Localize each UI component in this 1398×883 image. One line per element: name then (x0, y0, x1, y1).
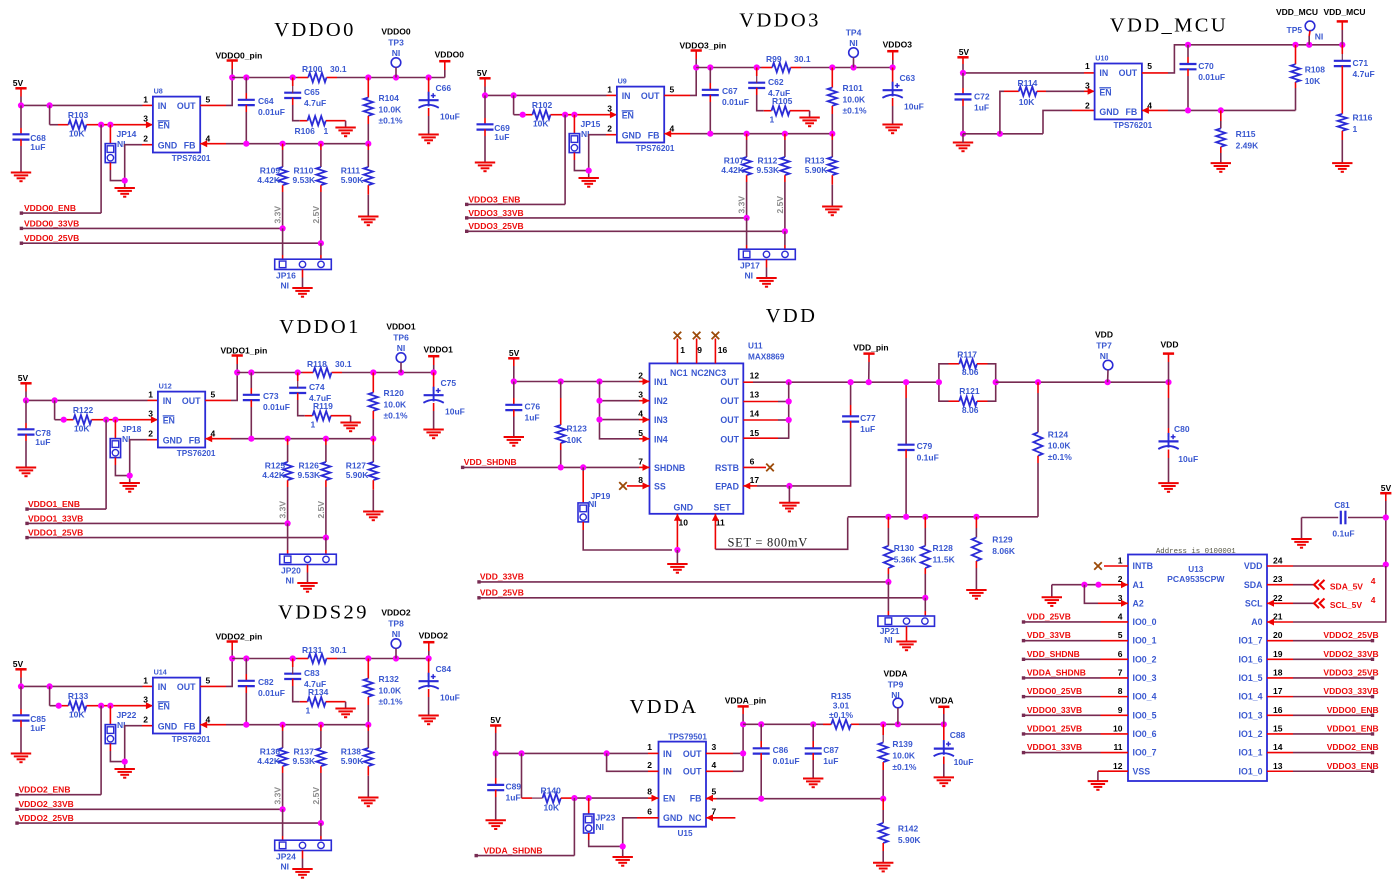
resistor R130 (884, 517, 918, 582)
resistor R104 (364, 78, 403, 144)
svg-text:IO0_6: IO0_6 (1133, 729, 1157, 739)
net label VDDO1_25VB (25, 528, 326, 540)
svg-text:JP17: JP17 (740, 261, 760, 271)
wire output bus (232, 62, 445, 78)
svg-text:3.3V: 3.3V (737, 196, 747, 214)
junction C70 top (1185, 42, 1191, 48)
jumper JP16 (275, 259, 332, 290)
svg-text:JP22: JP22 (117, 710, 137, 720)
svg-text:C87: C87 (823, 745, 839, 755)
svg-text:VDDO0: VDDO0 (274, 19, 355, 41)
wire OUT tie to VDDA bus (706, 724, 743, 771)
net label VDDO2_25VB (U13 pin 20) (1267, 630, 1379, 642)
junction FB-C1 (248, 436, 254, 442)
junction EN-ENB (98, 122, 104, 128)
title VDD_MCU (1110, 15, 1228, 37)
pin 3 EN input arrow (151, 416, 158, 423)
resistor R129 (972, 517, 1016, 590)
pin 3 EN arrow (U10) (1088, 88, 1095, 95)
svg-text:2: 2 (647, 760, 652, 770)
label 2.5V (311, 787, 321, 805)
junction FB-Rb (323, 436, 329, 442)
svg-text:SCL: SCL (1245, 598, 1263, 608)
regulator IC U12 TPS76201 (148, 382, 216, 458)
svg-text:IN3: IN3 (654, 415, 668, 425)
pin 3 A2 wire (1084, 585, 1128, 604)
svg-text:IO0_3: IO0_3 (1133, 673, 1157, 683)
ground under R127 (363, 512, 383, 521)
svg-text:10uF: 10uF (954, 757, 974, 767)
wire GND bottom net (963, 110, 1095, 133)
svg-text:IN: IN (158, 101, 167, 111)
svg-text:21: 21 (1273, 611, 1283, 621)
junction VDDA_pin node (740, 721, 746, 727)
svg-text:30.1: 30.1 (335, 359, 352, 369)
junction SHDNB-JP19 (580, 464, 586, 470)
capacitor C69 (477, 95, 511, 162)
title VDD (766, 305, 818, 327)
svg-text:IO1_3: IO1_3 (1239, 710, 1263, 720)
ground under R113 (822, 207, 842, 216)
svg-text:EN: EN (1099, 87, 1111, 97)
capacitor C71 (1334, 45, 1375, 114)
pin 3 IN2 arrow (643, 397, 650, 404)
svg-text:R115: R115 (1236, 129, 1256, 139)
svg-text:4.42K: 4.42K (257, 175, 281, 185)
jumper JP20 (280, 554, 337, 585)
svg-text:VDDO1: VDDO1 (386, 321, 416, 331)
junction C76 top (511, 378, 517, 384)
junction TP stem (393, 74, 399, 80)
test point TP5 (1276, 7, 1323, 45)
svg-text:FB: FB (189, 435, 201, 445)
svg-text:30.1: 30.1 (794, 54, 811, 64)
net label VDDO1_ENB (25, 499, 106, 511)
svg-text:OUT: OUT (720, 396, 739, 406)
svg-text:10K: 10K (69, 710, 85, 720)
net label VDDA_SHDNB (475, 798, 575, 857)
power symbol VDDO2_pin (216, 631, 263, 658)
power symbol 5V (VDD) (508, 348, 519, 366)
svg-text:MAX8869: MAX8869 (748, 353, 785, 362)
net label VDD_25VB (477, 588, 925, 600)
wire VDD output bus (996, 381, 1169, 383)
svg-text:SET: SET (714, 502, 732, 512)
svg-text:±0.1%: ±0.1% (892, 762, 916, 772)
net label VDDO3_33VB (465, 208, 747, 220)
ground under VSS (1088, 781, 1108, 790)
svg-text:C66: C66 (436, 83, 452, 93)
power symbol VDD_pin (853, 343, 888, 383)
power symbol 5V (477, 68, 491, 87)
pin 3 EN input arrow (146, 702, 153, 709)
IC U11 MAX8869 (638, 341, 785, 527)
svg-text:30.1: 30.1 (330, 64, 347, 74)
svg-text:R103: R103 (68, 110, 89, 120)
junction 5V node (23, 397, 29, 403)
resistor R112 (757, 134, 790, 232)
svg-text:VDDO1_33VB: VDDO1_33VB (28, 513, 83, 523)
svg-text:R137: R137 (294, 746, 315, 756)
junction C_out2 top (295, 369, 301, 375)
svg-text:±0.1%: ±0.1% (384, 411, 408, 421)
net label VDD_SHDNB (461, 457, 650, 469)
svg-text:JP15: JP15 (581, 119, 601, 129)
resistor R120 (369, 373, 408, 439)
ground under C75 (423, 430, 443, 439)
svg-text:VDDA: VDDA (630, 696, 699, 718)
svg-text:GND: GND (1099, 107, 1119, 117)
jumper JP14 (105, 125, 136, 181)
junction FB-Rfb (829, 131, 835, 137)
svg-text:5: 5 (206, 94, 211, 104)
svg-text:A2: A2 (1133, 598, 1144, 608)
pin 10 GND stub (674, 514, 681, 550)
power symbol VDDO1_pin (221, 345, 268, 372)
pin 2 A1 wire to ground (1052, 585, 1128, 598)
wire EN net (96, 124, 153, 126)
junction OUT3 (786, 417, 792, 423)
resistor R106 (295, 116, 346, 136)
label 2.5V (311, 206, 321, 224)
svg-text:R133: R133 (68, 691, 89, 701)
pin 21 A0 arrow (1267, 619, 1274, 626)
junction C86 top (758, 721, 764, 727)
jumper JP22 (105, 706, 136, 762)
svg-text:30.1: 30.1 (330, 645, 347, 655)
svg-text:R101: R101 (843, 83, 864, 93)
svg-text:FB: FB (690, 794, 702, 804)
svg-text:7: 7 (1118, 667, 1123, 677)
ground under C69 (475, 163, 495, 172)
svg-text:VDDO1: VDDO1 (279, 316, 360, 338)
svg-text:23: 23 (1273, 574, 1283, 584)
junction R_en branch (47, 683, 53, 689)
resistor R135 (829, 691, 853, 729)
svg-text:IN: IN (1099, 68, 1108, 78)
resistor R102 (514, 95, 560, 128)
junction FB-Ra (285, 436, 291, 442)
svg-text:VDDO3_pin: VDDO3_pin (680, 40, 727, 50)
svg-text:VDDO2_25VB: VDDO2_25VB (1323, 630, 1378, 640)
wire jumper to ground (302, 851, 304, 870)
pin 17 EPAD arrow (743, 482, 750, 489)
svg-text:5.90K: 5.90K (346, 470, 370, 480)
capacitor C76 (505, 382, 540, 438)
svg-text:17: 17 (1273, 686, 1283, 696)
svg-text:1uF: 1uF (860, 424, 875, 434)
svg-text:OUT: OUT (683, 749, 702, 759)
svg-text:0.1uF: 0.1uF (1332, 529, 1354, 539)
resistor R116 (1338, 113, 1373, 164)
svg-text:10uF: 10uF (904, 102, 924, 112)
wire OUT pin up to output node (205, 373, 237, 401)
svg-text:GND: GND (674, 502, 694, 512)
junction R_fb top (829, 64, 835, 70)
svg-text:VDDO0_pin: VDDO0_pin (216, 50, 263, 60)
svg-text:IO0_2: IO0_2 (1133, 654, 1157, 664)
svg-text:IN: IN (163, 396, 172, 406)
net label VDDO3_ENB (U13 pin 13) (1267, 761, 1379, 773)
svg-text:VDD_25VB: VDD_25VB (1027, 612, 1071, 622)
svg-text:20: 20 (1273, 630, 1283, 640)
svg-text:0.01uF: 0.01uF (258, 107, 285, 117)
svg-text:VDDS29: VDDS29 (278, 602, 369, 624)
svg-text:VDDO2_33VB: VDDO2_33VB (19, 799, 74, 809)
svg-text:SCL_5V: SCL_5V (1330, 600, 1362, 610)
svg-text:VDD_MCU: VDD_MCU (1276, 7, 1318, 17)
svg-text:VDDO3_ENB: VDDO3_ENB (468, 194, 520, 204)
ground under C80 (1158, 483, 1178, 492)
resistor R138 (341, 725, 373, 798)
svg-text:C73: C73 (263, 391, 279, 401)
junction GND-JP node (122, 759, 128, 765)
svg-text:VDDO2_ENB: VDDO2_ENB (1327, 742, 1379, 752)
jumper JP21 (878, 616, 935, 645)
net label VDDO3_ENB (465, 194, 565, 206)
wire 5V to U15 IN1 (496, 733, 659, 753)
label 2.5V (775, 196, 785, 214)
svg-text:IO0_1: IO0_1 (1133, 636, 1157, 646)
svg-text:17: 17 (750, 475, 760, 485)
junction EN-JP (107, 122, 113, 128)
test point TP8 (381, 607, 411, 658)
wire GND pin to ground (589, 135, 617, 178)
junction 33VB (285, 520, 291, 526)
svg-text:R130: R130 (894, 543, 915, 553)
svg-text:0.01uF: 0.01uF (258, 688, 285, 698)
svg-text:19: 19 (1273, 649, 1283, 659)
capacitor C63 polarized (882, 68, 923, 125)
junction 5V node (18, 102, 24, 108)
title VDDO3 (739, 10, 820, 32)
label SET = 800mV (728, 536, 809, 550)
svg-text:IN2: IN2 (654, 396, 668, 406)
wire EN net (101, 419, 158, 421)
capacitor C72 (955, 73, 990, 134)
svg-text:5V: 5V (13, 78, 24, 88)
svg-text:R110: R110 (294, 165, 314, 175)
wire EN net (96, 705, 153, 707)
junction C79 top (903, 379, 909, 385)
svg-text:2.49K: 2.49K (1236, 140, 1260, 150)
svg-text:TP5: TP5 (1287, 25, 1303, 35)
svg-text:16: 16 (1273, 705, 1283, 715)
wire output bus (237, 357, 434, 373)
ground under JP24 (292, 869, 312, 878)
junction R_fb top (370, 369, 376, 375)
svg-text:VDDO1_ENB: VDDO1_ENB (28, 499, 80, 509)
svg-text:VDDO2_33VB: VDDO2_33VB (1323, 649, 1378, 659)
svg-text:VDDO3_25VB: VDDO3_25VB (468, 221, 523, 231)
svg-text:±0.1%: ±0.1% (843, 106, 867, 116)
svg-text:NI: NI (397, 343, 406, 353)
svg-text:12: 12 (750, 371, 760, 381)
pin 3 EN input arrow (610, 111, 617, 118)
svg-text:5V: 5V (490, 715, 501, 725)
net label VDDO3_25VB (U13 pin 18) (1267, 668, 1379, 680)
off-page connector SDA_5V (1314, 576, 1376, 591)
svg-text:13: 13 (750, 390, 760, 400)
junction FB-C1 (243, 722, 249, 728)
pin 21 A0 wire (1267, 566, 1386, 622)
ground under C88 (934, 777, 954, 786)
svg-text:U13: U13 (1188, 565, 1203, 574)
pin 24 VDD wire (1267, 565, 1386, 567)
svg-text:VDDA_pin: VDDA_pin (725, 696, 767, 706)
junction R_en left pin (61, 417, 67, 423)
svg-text:EN: EN (158, 121, 170, 131)
svg-text:5.90K: 5.90K (341, 175, 365, 185)
svg-text:TP9: TP9 (888, 680, 904, 690)
junction 25VB-R128 (922, 595, 928, 601)
wire select drops to jumper (283, 228, 321, 259)
svg-text:4.7uF: 4.7uF (1353, 69, 1375, 79)
svg-text:R109: R109 (260, 165, 281, 175)
junction EN-ENB (562, 112, 568, 118)
svg-text:VDDO3: VDDO3 (739, 10, 820, 32)
svg-text:9.53K: 9.53K (293, 756, 317, 766)
svg-text:0.01uF: 0.01uF (773, 756, 800, 766)
svg-text:C63: C63 (900, 73, 916, 83)
resistor R127 (346, 439, 378, 512)
svg-text:TP7: TP7 (1096, 341, 1112, 351)
svg-text:5.90K: 5.90K (341, 756, 365, 766)
junction C72 ground node (960, 131, 966, 137)
capacitor C77 (842, 382, 876, 479)
svg-text:IO0_5: IO0_5 (1133, 710, 1157, 720)
junction TP stem (850, 64, 856, 70)
resistor R105 (764, 96, 810, 124)
resistor R133 (50, 686, 96, 719)
junction R_en branch (510, 92, 516, 98)
wire VDDA bus (743, 723, 944, 725)
pin 22 SCL arrow (1267, 600, 1274, 607)
power symbol 5V (C81) (1380, 483, 1391, 501)
svg-text:8: 8 (1118, 686, 1123, 696)
svg-text:RSTB: RSTB (715, 463, 739, 473)
svg-text:C67: C67 (722, 86, 738, 96)
wire jumper to ground (766, 260, 768, 279)
wire 5V to U10 IN (963, 64, 1095, 73)
junction C77 top (848, 379, 854, 385)
wire FB net (200, 724, 368, 726)
svg-text:3: 3 (143, 114, 148, 124)
test point TP7 (1095, 330, 1113, 383)
svg-text:VDDO2_ENB: VDDO2_ENB (19, 785, 71, 795)
ground under C76 (504, 437, 524, 446)
power symbol 5V (MCU) (957, 47, 969, 64)
svg-text:VDD_33VB: VDD_33VB (1027, 630, 1071, 640)
svg-text:U12: U12 (159, 382, 172, 391)
svg-text:VDDO0: VDDO0 (381, 26, 411, 36)
svg-text:R112: R112 (758, 155, 778, 165)
svg-text:IO0_0: IO0_0 (1133, 617, 1157, 627)
wire 5V rail to C81 and VDD pin (1348, 501, 1386, 565)
junction FB-C86 (758, 796, 764, 802)
svg-text:VDD_SHDNB: VDD_SHDNB (464, 457, 517, 467)
svg-text:10K: 10K (567, 435, 583, 445)
svg-text:1: 1 (143, 94, 148, 104)
wire GND pin to ground (130, 440, 158, 483)
ground under JP16 (292, 288, 312, 297)
svg-text:5V: 5V (959, 47, 970, 57)
resistor R124 (1033, 382, 1072, 517)
wire VDDO3_ENB riser (564, 115, 566, 205)
net label VDDO0_33VB (U13 pin 9) (1022, 705, 1128, 717)
svg-text:U10: U10 (1095, 54, 1108, 63)
svg-text:JP24: JP24 (276, 852, 296, 862)
svg-text:IO1_2: IO1_2 (1239, 729, 1263, 739)
junction C_out2 top (290, 74, 296, 80)
svg-text:VDDO2: VDDO2 (419, 631, 449, 641)
svg-text:10.0K: 10.0K (892, 751, 916, 761)
svg-text:TP6: TP6 (393, 332, 409, 342)
junction R108 top (1292, 42, 1298, 48)
svg-text:GND: GND (622, 130, 642, 140)
svg-text:R116: R116 (1353, 113, 1373, 123)
svg-text:10uF: 10uF (1178, 454, 1198, 464)
net label VDDO1_33VB (25, 513, 287, 525)
svg-text:U15: U15 (678, 829, 693, 838)
capacitor C79 (898, 382, 939, 517)
svg-text:TPS76201: TPS76201 (172, 154, 211, 163)
junction parallel right (993, 379, 999, 385)
junction GND-JP23 (620, 843, 626, 849)
junction FB-Ra (280, 141, 286, 147)
power symbol VDDA (929, 695, 953, 724)
svg-text:VDDO1_pin: VDDO1_pin (221, 345, 268, 355)
jumper JP15 (569, 115, 600, 171)
svg-text:1uF: 1uF (494, 132, 509, 142)
resistor R110 (293, 144, 326, 244)
ground under R115 (1211, 163, 1231, 172)
pin 7 NC stub (706, 814, 735, 821)
wire output bus (232, 643, 429, 659)
svg-text:R125: R125 (265, 460, 286, 470)
net label VDDO0_25VB (U13 pin 8) (1022, 686, 1128, 698)
svg-text:FB: FB (648, 130, 660, 140)
svg-text:OUT: OUT (1119, 68, 1138, 78)
svg-text:3: 3 (712, 742, 717, 752)
svg-text:R122: R122 (73, 405, 94, 415)
svg-text:VDDO3_ENB: VDDO3_ENB (1327, 761, 1379, 771)
svg-text:VDDO2: VDDO2 (381, 607, 411, 617)
resistor R113 (805, 134, 837, 207)
svg-text:R114: R114 (1018, 78, 1038, 88)
junction TP stem (398, 369, 404, 375)
net label VDDO2_25VB (15, 813, 321, 825)
junction GND-JP node (122, 178, 128, 184)
svg-text:10K: 10K (544, 803, 560, 813)
junction C_out1 top (243, 655, 249, 661)
svg-text:2.5V: 2.5V (775, 196, 785, 214)
wire 5V to IN pin (21, 97, 153, 106)
junction 5V node (482, 92, 488, 98)
svg-text:5V: 5V (509, 348, 520, 358)
junction VDD bar node (1165, 379, 1171, 385)
svg-text:VDDO3_33VB: VDDO3_33VB (1323, 686, 1378, 696)
junction 33VB (280, 806, 286, 812)
junction FB-C70 (1185, 107, 1191, 113)
svg-text:C74: C74 (309, 382, 325, 392)
ground under JP21 (896, 642, 916, 651)
svg-text:VDDO0_ENB: VDDO0_ENB (24, 203, 76, 213)
wire EPAD net (743, 479, 850, 486)
ground under R138 (358, 798, 378, 807)
wire OUT pin up to output node (200, 659, 232, 687)
svg-text:3: 3 (607, 104, 612, 114)
